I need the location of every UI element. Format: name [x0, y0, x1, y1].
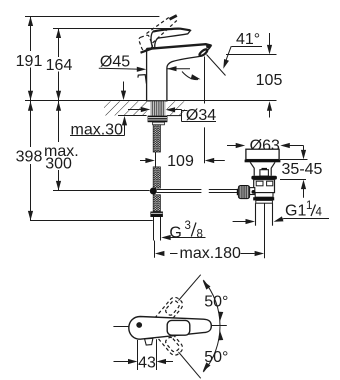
- svg-text:398: 398: [16, 149, 43, 166]
- plan view: handle dot: [136, 322, 142, 328]
- svg-text:Ø45: Ø45: [100, 54, 130, 71]
- svg-text:43: 43: [138, 355, 156, 372]
- bottom reference line max.300: [53, 190, 150, 192]
- svg-text:8: 8: [197, 229, 203, 241]
- svg-text:max.30: max.30: [71, 122, 124, 139]
- 50 degree arc upper: [203, 280, 220, 326]
- svg-text:3: 3: [185, 220, 191, 232]
- lever cap bottom edge: [141, 49, 152, 53]
- dimension max.30: [70, 82, 125, 136]
- dimension 105: [269, 33, 271, 46]
- 50 degree diagonal extension lower: [179, 352, 201, 378]
- flexible supply hose middle segment: [153, 167, 160, 188]
- horizontal pop-up actuating rod: [157, 190, 239, 193]
- pop-up waste dome: [246, 149, 279, 159]
- waste flange: [251, 176, 277, 180]
- 50 degree arc lower: [203, 326, 220, 372]
- bottom reference line 398: [30, 220, 153, 222]
- spout stream diagonal leader: [207, 55, 226, 76]
- plan view: handle (solid): [129, 317, 212, 340]
- plan view: left stub line: [113, 326, 128, 328]
- dimension 109: [140, 160, 150, 162]
- faucet body and spout: [147, 44, 212, 101]
- dome shoulders: [250, 162, 275, 175]
- tailpipe centerline: [264, 204, 266, 259]
- svg-text:G: G: [169, 225, 181, 242]
- waste body: [254, 180, 275, 193]
- lift pin: [262, 168, 268, 171]
- dimension 35-45: [280, 146, 308, 198]
- threaded shank through countertop: [151, 101, 166, 115]
- dimension 164 / max.300 vertical line: [58, 29, 60, 58]
- countertop hatching right: [167, 101, 185, 115]
- spout tip extension line: [204, 57, 206, 104]
- lever handle (solid, horizontal position): [151, 29, 190, 48]
- waste tailpipe: [255, 203, 257, 226]
- mounting nut: [148, 116, 168, 123]
- 50 degree diagonal extension upper: [179, 275, 201, 301]
- dimension max.180: [170, 253, 178, 255]
- reference line B (handle top height 164): [53, 28, 181, 30]
- svg-text:191: 191: [16, 53, 43, 70]
- dimension 43: [114, 339, 174, 370]
- svg-text:50°: 50°: [204, 293, 228, 310]
- knurled rod coupling: [238, 186, 249, 199]
- svg-text:4: 4: [316, 207, 323, 219]
- shank collar: [153, 122, 165, 125]
- reference line A (handle raised max height): [25, 16, 159, 18]
- dimension Ø34: [128, 110, 216, 122]
- svg-text:109: 109: [167, 153, 194, 170]
- svg-text:Ø34: Ø34: [186, 107, 216, 124]
- 41 degree curved arrow: [224, 46, 231, 66]
- dimension Ø63: [227, 145, 240, 147]
- raised lever tip (thick): [170, 16, 177, 20]
- svg-text:G1: G1: [285, 203, 306, 220]
- flexible supply hose upper segment: [153, 125, 160, 152]
- countertop hatching left: [104, 101, 147, 115]
- plan view: right stub line: [211, 325, 227, 327]
- plan view: notch under handle head: [145, 338, 153, 345]
- svg-text:50°: 50°: [204, 349, 228, 366]
- countertop reference line: [25, 100, 277, 102]
- arrowheads of left dimension chain: [28, 17, 33, 27]
- svg-text:164: 164: [46, 57, 73, 74]
- plan view: handle rotated positions (dashed): [147, 295, 185, 357]
- svg-text:35-45: 35-45: [282, 161, 323, 178]
- svg-text:105: 105: [256, 72, 283, 89]
- svg-text:max.180: max.180: [180, 245, 241, 262]
- G3/8 leader: [171, 237, 206, 239]
- svg-text:1: 1: [306, 200, 312, 212]
- flexible supply hose lower segment: [153, 195, 160, 212]
- svg-text:41°: 41°: [236, 31, 260, 48]
- G1 1/4 left arrow to tailpipe: [233, 221, 247, 223]
- spout top thick edge: [147, 44, 212, 49]
- waste body lower: [255, 193, 273, 198]
- stream direction curved arrow: [182, 72, 198, 80]
- svg-text:300: 300: [45, 156, 72, 173]
- spout angle reference line: [226, 54, 277, 56]
- dimension 191 vertical line: [30, 17, 32, 52]
- tube extension line: [154, 241, 156, 258]
- hose end fitting G3/8: [150, 212, 163, 218]
- G1 1/4 leader: [284, 218, 329, 220]
- hose connector tube: [153, 217, 155, 241]
- aerator at spout tip: [199, 48, 209, 57]
- coupling stem: [250, 188, 255, 195]
- pull-rod ball joint: [150, 188, 157, 195]
- lever handle raised position (dashed): [138, 17, 177, 51]
- pop-up rod knob behind spout: [138, 75, 147, 84]
- dimension Ø45: [99, 68, 190, 69]
- hose centerline extension: [155, 152, 157, 167]
